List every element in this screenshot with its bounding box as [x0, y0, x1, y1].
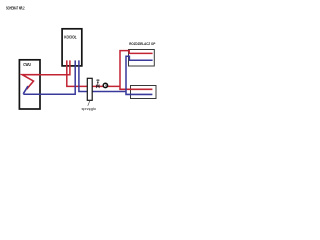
manifold rozdzielacz OP top: [129, 50, 155, 67]
valve label smudge: [96, 79, 99, 81]
boiler KOCIOL: [62, 29, 82, 66]
heat exchanger coil red part in CWU: [22, 75, 40, 90]
wire red main supply (R1 vertical + horizontal to node): [67, 60, 120, 86]
wire red riser to top manifold: [120, 51, 153, 90]
svg-text:SCHEMAT NR.2: SCHEMAT NR.2: [6, 5, 25, 10]
wire blue main return (B2 vertical + horizontal): [79, 60, 126, 91]
svg-text:KOCIOŁ: KOCIOŁ: [64, 35, 77, 40]
heat exchanger coil blue part in CWU: [24, 86, 29, 94]
pump on supply line: [103, 83, 107, 87]
wire blue into bottom manifold: [125, 93, 152, 95]
svg-text:CWU: CWU: [23, 62, 31, 67]
CWU tank: [19, 60, 40, 109]
valve Z on supply line: [96, 81, 99, 88]
hydraulic separator sprzeglo: [87, 78, 92, 100]
svg-text:sprzęgło: sprzęgło: [82, 107, 97, 111]
wire red into bottom manifold: [119, 88, 152, 90]
svg-text:ROZDZIELACZ OP: ROZDZIELACZ OP: [129, 42, 155, 46]
wire blue CWU return to boiler (horizontal + B1 vertical): [23, 60, 75, 94]
manifold bottom: [131, 86, 157, 99]
leader line for sprzeglo label: [88, 101, 90, 106]
wire red supply boiler to CWU (R2 vertical + horizontal): [40, 60, 70, 74]
wire blue riser to top manifold: [126, 56, 153, 94]
